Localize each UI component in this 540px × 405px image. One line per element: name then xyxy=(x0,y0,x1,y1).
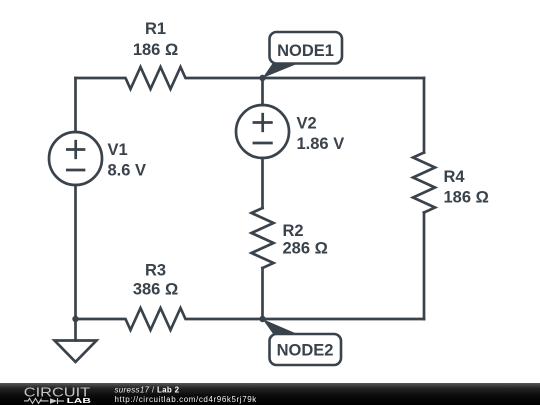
svg-text:1.86 V: 1.86 V xyxy=(297,135,345,153)
svg-text:186 Ω: 186 Ω xyxy=(444,189,489,207)
svg-text:R3: R3 xyxy=(145,261,166,279)
svg-text:186 Ω: 186 Ω xyxy=(133,41,178,59)
svg-text:LAB: LAB xyxy=(67,396,91,405)
svg-text:NODE2: NODE2 xyxy=(277,342,334,360)
svg-text:8.6 V: 8.6 V xyxy=(108,161,147,179)
svg-text:suress17 / Lab 2: suress17 / Lab 2 xyxy=(115,385,180,394)
svg-text:286 Ω: 286 Ω xyxy=(283,240,328,258)
svg-text:R4: R4 xyxy=(444,168,466,186)
svg-text:R2: R2 xyxy=(283,222,304,240)
svg-text:R1: R1 xyxy=(145,20,166,38)
svg-text:NODE1: NODE1 xyxy=(277,42,334,60)
svg-text:386 Ω: 386 Ω xyxy=(133,281,178,299)
svg-text:http://circuitlab.com/cd4r96k5: http://circuitlab.com/cd4r96k5rj79k xyxy=(115,395,258,404)
svg-text:V1: V1 xyxy=(108,141,128,159)
svg-text:V2: V2 xyxy=(297,115,317,133)
